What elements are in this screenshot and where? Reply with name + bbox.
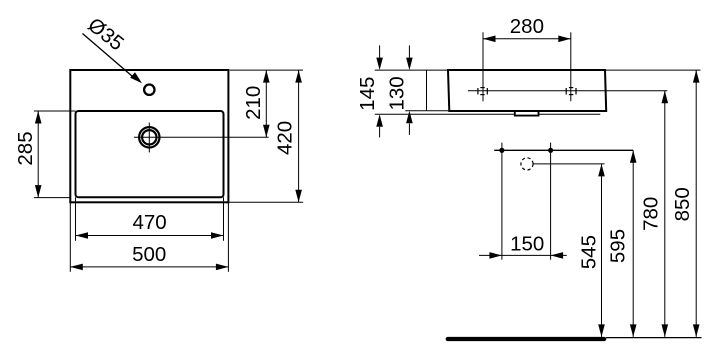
floor line thin [606, 337, 702, 339]
dim 420 arrow up [295, 70, 302, 83]
svg-text:780: 780 [640, 197, 663, 231]
dim 470 arrow left [76, 232, 89, 239]
svg-text:500: 500 [132, 243, 166, 266]
dim 470 line [76, 235, 224, 237]
dim 285 arrow down [35, 185, 42, 198]
dim 595 arrow up [630, 150, 637, 163]
dim 850 line [695, 70, 697, 337]
dim 210 arrow down [263, 125, 270, 138]
fixing line horizontal [494, 149, 633, 151]
dim 210 arrow up [263, 70, 270, 83]
dim 285 line [37, 111, 39, 198]
faucet hole tick marks right hole [565, 88, 567, 95]
dim 780 arrow up [662, 91, 669, 104]
dim 145 top arrow [379, 45, 381, 58]
basin back ledge vertical line [426, 70, 428, 111]
reference line at 145 level [375, 113, 601, 115]
svg-text:850: 850 [671, 187, 694, 221]
dim 280 arrow right [558, 36, 571, 43]
dim 850 arrow down [693, 324, 700, 337]
faucet hole circle [144, 85, 154, 95]
dim 780 arrow down [662, 324, 669, 337]
dim 545 line [601, 164, 603, 337]
dim 500 extension right [227, 202, 229, 271]
svg-text:150: 150 [510, 233, 544, 256]
svg-text:545: 545 [578, 235, 601, 269]
fixing vertical right [550, 143, 552, 260]
dim 780 line [664, 91, 666, 337]
dim 545 arrow down [598, 324, 605, 337]
dim 130 bottom arrow [408, 124, 410, 135]
dim 500 line [70, 266, 228, 268]
dim 285 arrow up [35, 111, 42, 124]
dim 470 arrow right [211, 232, 224, 239]
svg-text:145: 145 [356, 77, 379, 111]
dim 470 extension left [75, 197, 77, 241]
dim 500 arrow right [216, 264, 229, 271]
dim 210 line [265, 70, 267, 137]
faucet hole dashes top/bottom left hole [480, 87, 484, 89]
dim 545 arrow up [598, 164, 605, 177]
dim 285 extension bottom [34, 197, 70, 199]
dim 420 arrow down [295, 190, 302, 203]
inner basin rectangle [76, 111, 224, 197]
dim 150 arrow pointing left [551, 252, 564, 259]
drain outer circle [139, 127, 159, 147]
drain centerline to 210 dim [134, 136, 269, 138]
svg-text:280: 280 [510, 15, 544, 38]
dashed drain circle [521, 158, 533, 170]
drain inner circle [142, 130, 156, 144]
dim 500 extension left [69, 202, 71, 271]
basin body outline [448, 70, 606, 111]
dim 500 arrow left [70, 264, 83, 271]
faucet hole dashes top/bottom right hole [569, 87, 573, 89]
dim 595 arrow down [630, 324, 637, 337]
top extension line full width [375, 69, 701, 71]
outer rim rectangle [70, 70, 228, 202]
dim 850 arrow up [693, 70, 700, 83]
faucet centerline [468, 90, 667, 92]
leader line to faucet hole [83, 34, 137, 80]
dim 150 arrow pointing right [489, 252, 502, 259]
dim 150 line [479, 254, 567, 256]
dim 280 extension right [570, 32, 572, 101]
dim 280 arrow left [483, 36, 496, 43]
dim 145 bottom arrow [379, 127, 381, 137]
svg-text:470: 470 [132, 211, 166, 234]
bottom right extension line [229, 201, 303, 203]
faucet hole tick marks left hole [477, 88, 479, 95]
reference line stub at 130 level [405, 110, 449, 112]
svg-text:210: 210 [242, 86, 265, 120]
dim 595 line [632, 150, 634, 337]
svg-text:420: 420 [274, 121, 297, 155]
top right extension line [230, 69, 303, 71]
fixing dot right [548, 148, 553, 153]
fixing dot left [499, 148, 504, 153]
dim 130 top arrow [408, 45, 410, 58]
dim 285 extension top [34, 110, 76, 112]
drain boss under basin [515, 111, 539, 116]
drain level line [533, 163, 604, 165]
svg-text:595: 595 [607, 229, 630, 263]
dim 470 extension right [223, 197, 225, 241]
leader arrowhead [130, 72, 142, 83]
drain crosshair vertical [148, 123, 150, 153]
svg-text:130: 130 [386, 76, 409, 110]
dim 280 extension left [482, 32, 484, 101]
svg-text:285: 285 [14, 131, 37, 165]
floor line thick [446, 337, 607, 341]
dim 420 line [298, 70, 300, 202]
fixing vertical left [501, 143, 503, 260]
dim 280 line [483, 38, 571, 40]
